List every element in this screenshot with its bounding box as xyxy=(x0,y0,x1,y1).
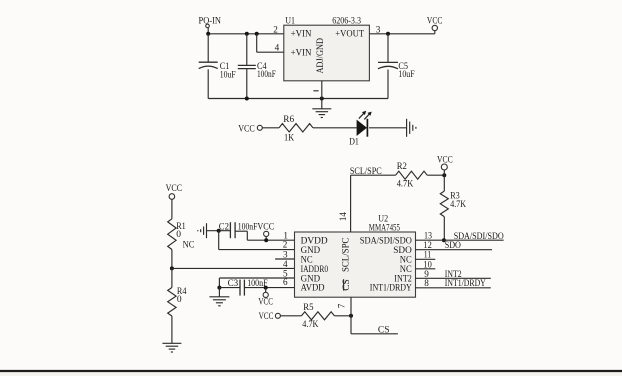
svg-text:+VIN: +VIN xyxy=(291,49,312,59)
svg-text:10: 10 xyxy=(423,259,432,269)
wire pin14 xyxy=(350,175,352,232)
junction C2/gnd/pin2 xyxy=(217,229,221,233)
svg-text:INT1/DRDY: INT1/DRDY xyxy=(370,284,412,294)
wire PO-IN stem xyxy=(207,28,209,34)
LED D1 xyxy=(349,111,372,148)
svg-text:R5: R5 xyxy=(303,303,313,313)
wire C3 gnd stem xyxy=(218,288,220,297)
junction U1 gnd xyxy=(320,97,324,101)
svg-text:+VOUT: +VOUT xyxy=(335,30,364,40)
wire pin13 SDA/SDI/SDO xyxy=(416,239,504,241)
wire R3 to pin13 xyxy=(443,217,445,241)
junction at C5 top xyxy=(386,32,390,36)
node VCC at pin1 xyxy=(257,222,274,240)
junction pin7 xyxy=(349,314,353,318)
wire pin1 DVDD xyxy=(247,239,294,241)
svg-text:VCC: VCC xyxy=(238,124,255,134)
svg-text:MMA7455: MMA7455 xyxy=(369,223,400,233)
wire pin4 IADDR0 xyxy=(172,267,295,269)
node PO-IN xyxy=(199,17,222,28)
wire pin5 GND xyxy=(219,278,294,288)
wire C4 bottom stem xyxy=(246,69,248,99)
junction pin6 vcc xyxy=(264,286,268,290)
svg-text:INT1/DRDY: INT1/DRDY xyxy=(445,279,486,289)
wire pin11 stub xyxy=(416,258,436,260)
wire C2 to pin1 xyxy=(235,231,247,240)
svg-text:100nF: 100nF xyxy=(257,70,276,80)
svg-text:6: 6 xyxy=(283,277,288,287)
op-amp U1 regulator box xyxy=(284,17,370,81)
svg-text:R2: R2 xyxy=(397,162,407,172)
wire C4 top stem xyxy=(246,34,248,65)
svg-text:4: 4 xyxy=(283,259,288,269)
svg-text:NC: NC xyxy=(183,240,195,250)
wire C1 top stem xyxy=(207,34,209,62)
wire pin3 VOUT xyxy=(369,33,434,35)
svg-text:SCL/SPC: SCL/SPC xyxy=(341,238,351,272)
wire to C3 xyxy=(219,287,240,289)
junction at C1 top xyxy=(206,32,210,36)
svg-text:AVDD: AVDD xyxy=(301,284,325,294)
wire pin9 INT2 xyxy=(416,277,491,279)
svg-text:0: 0 xyxy=(176,230,181,240)
svg-text:C3: C3 xyxy=(228,279,239,289)
wire R2 to vcc junction xyxy=(427,174,444,176)
svg-text:CS: CS xyxy=(378,325,390,335)
svg-text:C2: C2 xyxy=(219,222,229,232)
ground left of C2 xyxy=(198,223,207,238)
svg-text:7: 7 xyxy=(336,303,346,308)
resistor R3 xyxy=(440,191,466,217)
wire scl to R2 xyxy=(351,174,396,176)
svg-text:VCC: VCC xyxy=(259,312,274,322)
wire D1 to ground xyxy=(369,127,406,129)
ground below R4 xyxy=(162,343,181,352)
junction C3/gnd xyxy=(217,286,221,290)
svg-text:SDA/SDI/SDO: SDA/SDI/SDO xyxy=(454,232,504,242)
node VCC at R5 xyxy=(259,312,281,322)
wire top rail to pin2 xyxy=(208,33,284,35)
wire pin8 INT1/DRDY xyxy=(416,287,491,289)
junction pin1 vcc xyxy=(264,238,268,242)
junction R1/R4 xyxy=(170,266,174,270)
svg-text:R6: R6 xyxy=(283,115,294,125)
ground below U1 xyxy=(312,109,331,118)
node VCC at pin6 xyxy=(258,288,273,308)
svg-text:6206-3.3: 6206-3.3 xyxy=(332,17,361,27)
svg-text:1K: 1K xyxy=(284,133,294,143)
resistor R2 xyxy=(396,162,428,190)
svg-text:PO-IN: PO-IN xyxy=(199,17,222,27)
svg-text:14: 14 xyxy=(338,212,348,222)
svg-text:VCC: VCC xyxy=(437,155,453,165)
wire vcc to R5 xyxy=(281,315,302,317)
wire pin12 SDO xyxy=(416,249,493,251)
junction pin13 xyxy=(442,238,446,242)
svg-text:12: 12 xyxy=(423,240,432,250)
capacitor C3 xyxy=(228,279,245,295)
capacitor C5 xyxy=(378,62,415,80)
svg-text:4.7K: 4.7K xyxy=(397,179,414,189)
wire gnd to C2 xyxy=(207,230,231,232)
node VCC top right xyxy=(427,17,443,34)
svg-text:VCC: VCC xyxy=(166,184,183,194)
svg-text:4.7K: 4.7K xyxy=(450,200,466,210)
svg-text:0: 0 xyxy=(177,295,182,305)
resistor R1 xyxy=(168,219,186,250)
svg-text:VCC: VCC xyxy=(258,298,273,308)
wire R5 to pin7 xyxy=(334,315,351,317)
svg-text:3: 3 xyxy=(376,24,381,34)
wire vcc to R6 xyxy=(262,127,279,129)
ground right of D1 xyxy=(407,119,416,137)
wire R4 to ground xyxy=(171,316,173,343)
node VCC left xyxy=(166,184,183,199)
node VCC above R3 xyxy=(437,155,453,175)
wire U1 gnd stem with minus xyxy=(313,81,321,109)
svg-text:10uF: 10uF xyxy=(398,70,414,80)
wire C1 bottom stem xyxy=(207,69,209,98)
node VCC led row xyxy=(238,124,262,134)
capacitor C4 xyxy=(238,62,276,80)
svg-text:VCC: VCC xyxy=(427,17,443,27)
resistor R5 xyxy=(302,303,335,330)
junction at C4 top xyxy=(245,32,249,36)
junction C4 bottom xyxy=(245,97,249,101)
svg-text:ADJ/GND: ADJ/GND xyxy=(316,38,326,74)
svg-text:10uF: 10uF xyxy=(220,70,236,80)
junction R2/R3/VCC xyxy=(442,173,446,177)
wire pin4 branch xyxy=(257,34,284,52)
svg-text:8: 8 xyxy=(424,278,429,288)
wire C5 top stem xyxy=(387,34,389,62)
capacitor C1 xyxy=(199,62,236,80)
wire pin7 CS xyxy=(351,297,398,333)
wire R6 to D1 xyxy=(313,127,357,129)
junction pin4 branch xyxy=(255,32,259,36)
wire vcc to R1 xyxy=(171,199,173,219)
svg-text:SDO: SDO xyxy=(445,241,461,251)
resistor R4 xyxy=(168,268,187,316)
wire vcc to R3 xyxy=(443,175,445,191)
wire C3 to pin6 AVDD xyxy=(244,287,294,289)
resistor R6 xyxy=(279,115,313,144)
wire R1 to junction xyxy=(171,250,173,269)
ground below C3 xyxy=(209,297,229,306)
svg-text:+VIN: +VIN xyxy=(291,30,312,40)
svg-text:D1: D1 xyxy=(349,138,359,148)
wire C5 bottom stem xyxy=(387,70,389,99)
capacitor C2 xyxy=(219,222,235,238)
svg-text:11: 11 xyxy=(424,250,432,260)
accelerometer U2 MMA7455 box xyxy=(295,214,416,297)
svg-text:4.7K: 4.7K xyxy=(302,320,318,330)
wire pin3 stub xyxy=(275,258,294,260)
wire pin10 stub xyxy=(416,268,436,270)
svg-text:4: 4 xyxy=(275,42,280,52)
svg-text:U1: U1 xyxy=(285,17,295,27)
svg-text:2: 2 xyxy=(283,240,288,250)
svg-text:2: 2 xyxy=(273,24,278,34)
wire bottom rail xyxy=(208,98,388,100)
wire pin2 GND xyxy=(219,231,295,250)
